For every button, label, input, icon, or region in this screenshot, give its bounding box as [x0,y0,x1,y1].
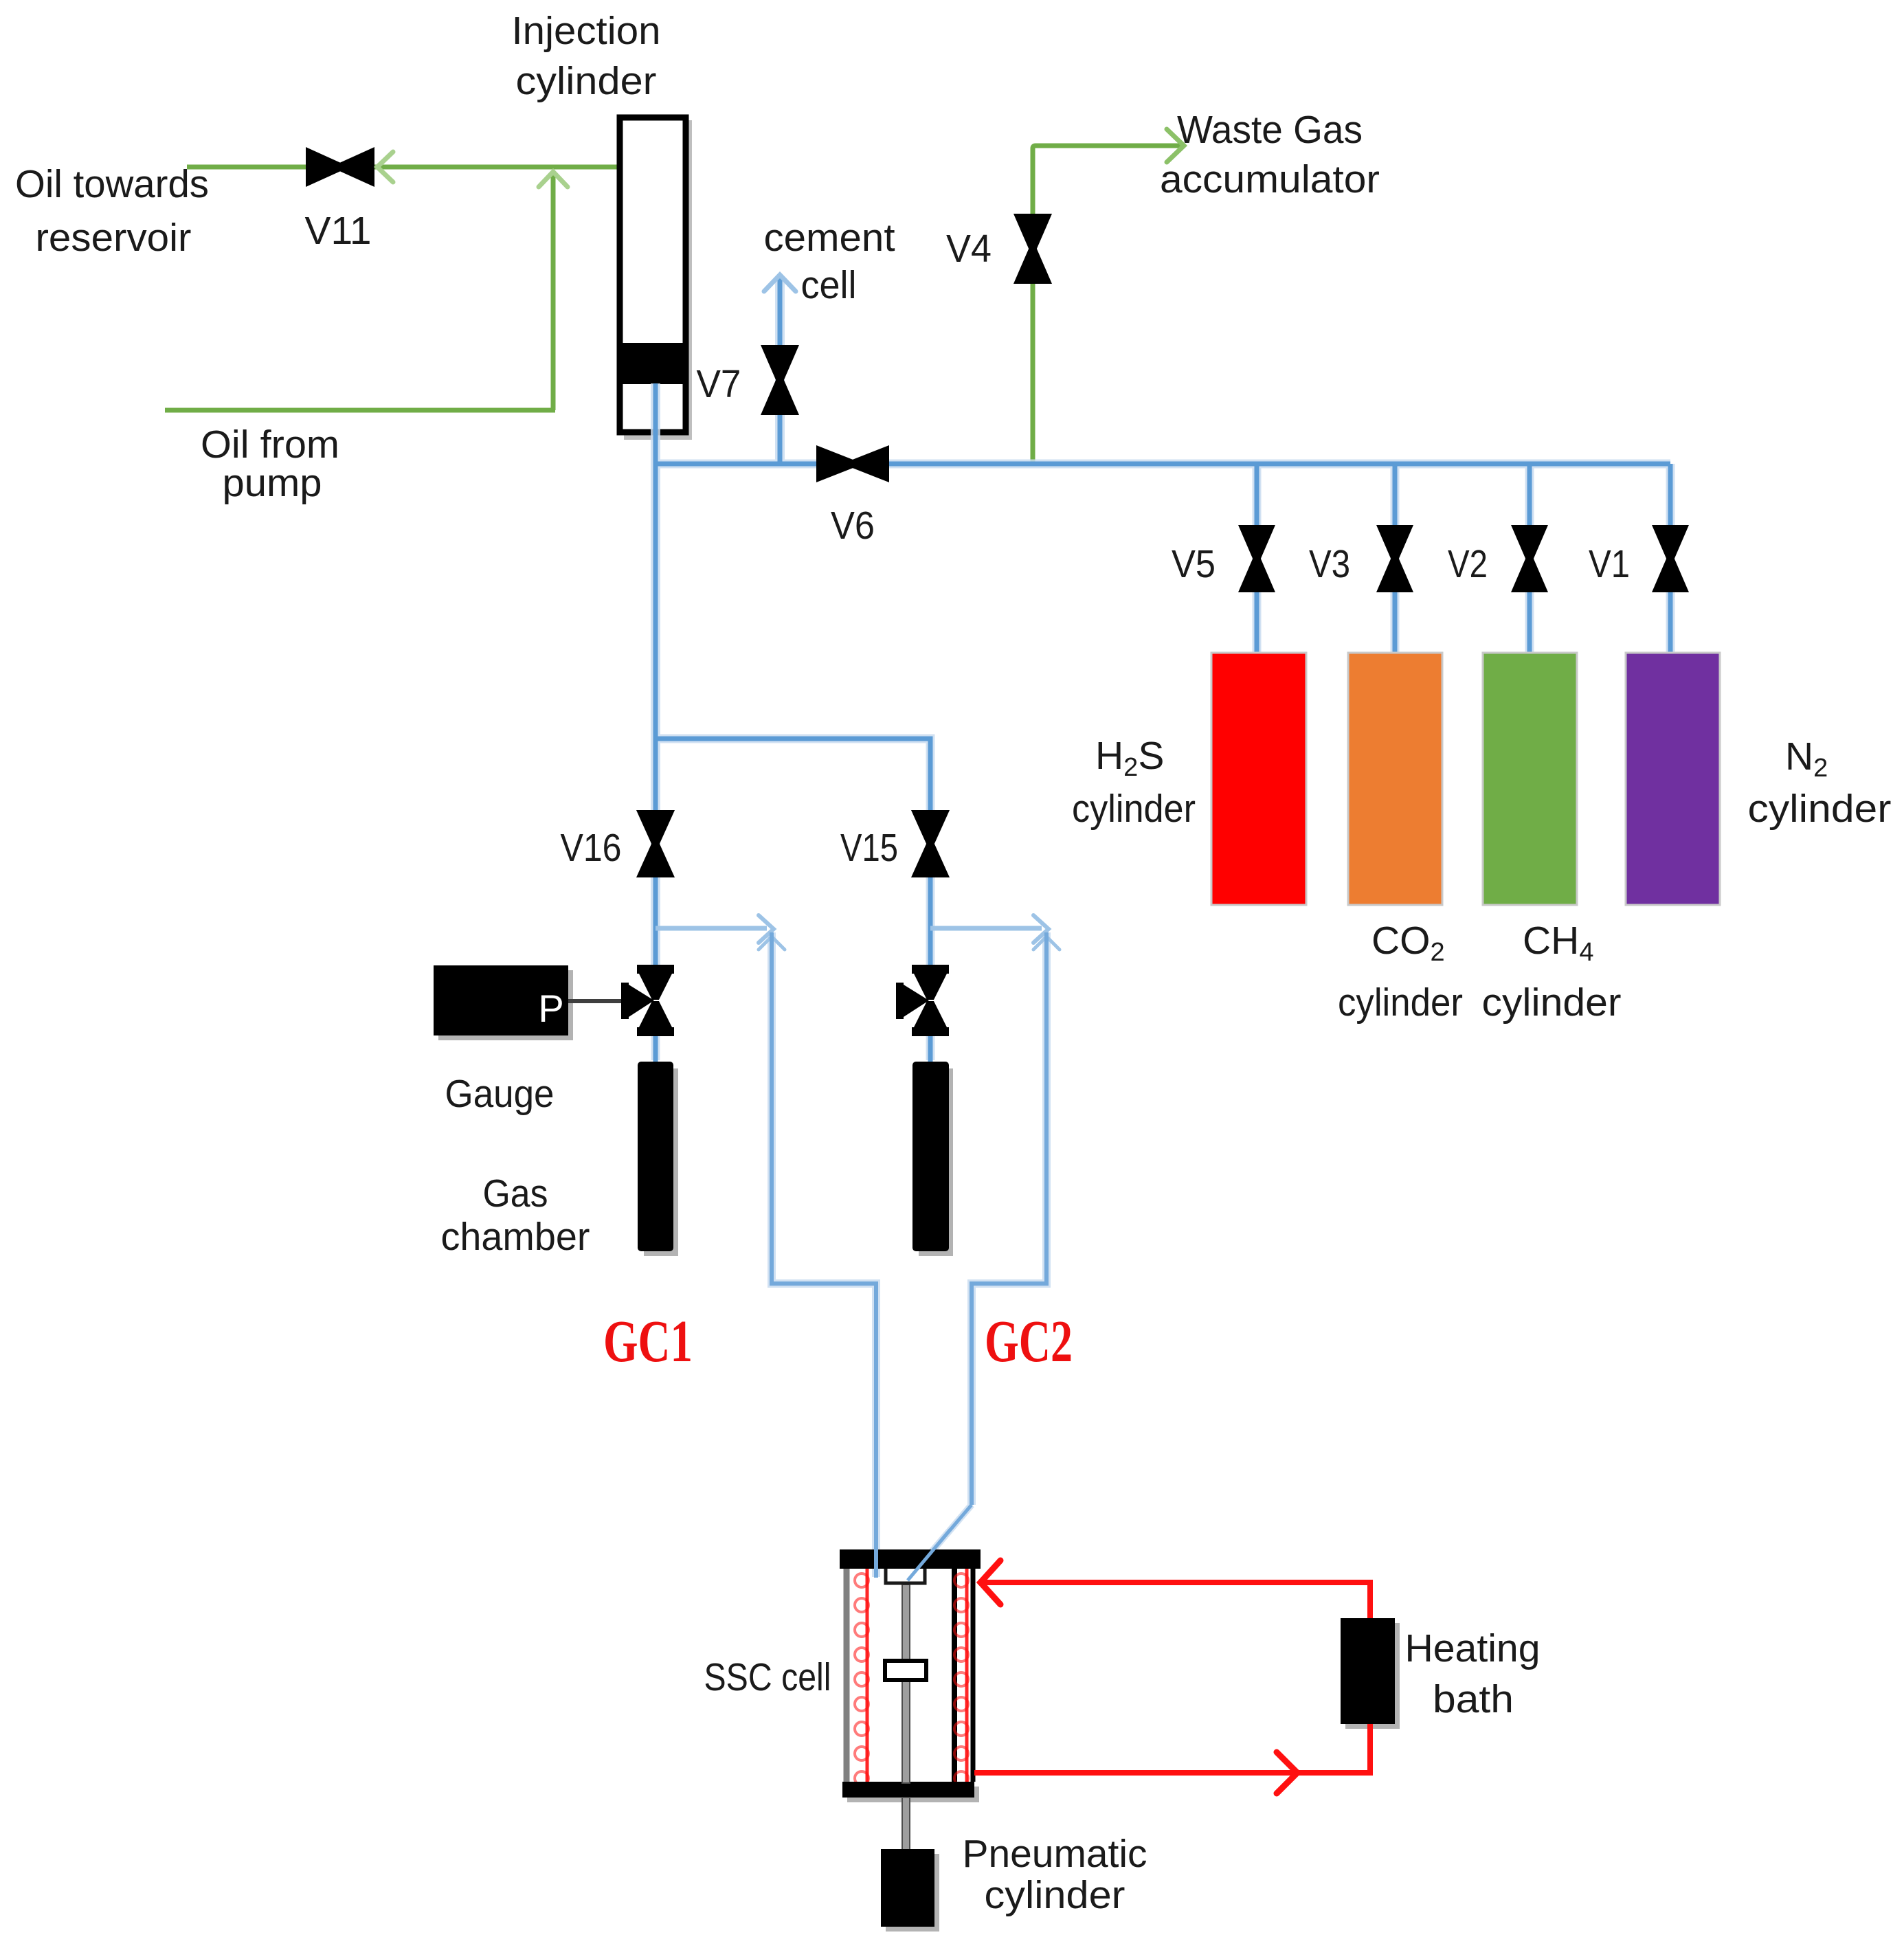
svg-text:cylinder: cylinder [1072,787,1196,831]
H2S cylinder (red) [1211,653,1306,905]
arrow up into main green line [539,172,568,187]
wire: V15 down leg [928,877,933,965]
SSC cell left wall [844,1569,850,1782]
wire: GC1 entry over plate [874,1546,878,1578]
heating coil right [954,1567,968,1799]
injection cylinder shadow [624,120,692,440]
wire: branch to V15 [656,739,930,810]
svg-text:cylinder: cylinder [1338,981,1463,1025]
svg-text:reservoir: reservoir [36,216,192,260]
heating bath [1341,1618,1395,1724]
injection cylinder piston [623,343,683,384]
pneumatic cylinder shadow [886,1854,939,1932]
valve V5 [1238,525,1275,592]
wire: GC1 drop to SSC cell [772,932,876,1577]
wire: main blue vertical from injection cylinder [653,383,658,965]
heating loop top line [978,1582,1370,1618]
svg-text:Heating: Heating [1405,1626,1541,1670]
pneumatic cylinder box [881,1849,934,1927]
svg-text:V4: V4 [946,227,992,271]
svg-text:V2: V2 [1448,542,1488,586]
wire: oil towards reservoir (green main horizontal) [187,165,619,170]
arrow to cement cell [764,275,796,291]
SSC cell bottom plate [842,1782,974,1798]
pneumatic rod [902,1798,910,1850]
wire: vertical green from oil pump line [551,173,556,410]
arrow into V11 (flow left) [377,152,393,182]
arrow to bath (heating) [1277,1752,1297,1793]
svg-text:cell: cell [801,263,857,307]
svg-text:Pneumatic: Pneumatic [963,1832,1147,1876]
svg-text:V15: V15 [840,826,898,870]
wire: GC2 drop [972,932,1046,1505]
valve V7 [761,345,799,415]
wire: N2 cylinder drop [1668,464,1673,653]
svg-text:GC2: GC2 [985,1308,1073,1374]
wire: waste gas green vertical [1033,146,1180,464]
injection cylinder [620,117,686,432]
svg-text:V5: V5 [1172,542,1216,586]
SSC cell bottom plate shadow [847,1787,979,1802]
valve V6 [816,445,889,482]
svg-text:V1: V1 [1589,542,1630,586]
wire halos (soft light-blue) [656,278,1670,1579]
svg-text:Oil towards: Oil towards [15,162,209,206]
arrow into cell (heating) [981,1560,1000,1604]
heating loop bottom line [974,1724,1370,1773]
wire: H2S cylinder drop [1255,464,1259,653]
wire: CH4 cylinder drop [1527,464,1532,653]
svg-text:V16: V16 [561,826,622,870]
svg-text:chamber: chamber [441,1215,590,1259]
wire: oil from pump (green lower horizontal) [165,408,555,413]
svg-text:Oil from: Oil from [201,423,339,467]
svg-text:cylinder: cylinder [1482,981,1622,1025]
wire: GC2 diagonal into SSC cell [908,1505,972,1579]
SSC cell top plate [840,1549,981,1569]
3-way valve on GC2 chamber [896,965,949,1036]
svg-text:Waste Gas: Waste Gas [1177,108,1363,152]
valve V3 [1376,525,1413,592]
svg-text:cylinder: cylinder [1748,787,1892,831]
gas chamber GC1 (black bar) [644,1068,678,1256]
valve V1 [1652,525,1689,592]
valve V16 [636,810,675,877]
wire: main blue horizontal manifold [656,462,1670,467]
svg-text:Injection: Injection [512,9,661,53]
svg-text:accumulator: accumulator [1160,157,1380,201]
SSC cell right wall inner [952,1569,957,1782]
svg-text:GC1: GC1 [603,1308,693,1374]
wire: CO2 cylinder drop [1393,464,1398,653]
N2 cylinder (purple) [1626,653,1720,905]
svg-text:V3: V3 [1309,542,1350,586]
3-way valve on GC1 chamber [621,965,674,1036]
gauge box [434,965,568,1035]
wire: to GC2 chamber [928,1036,933,1064]
svg-text:cement: cement [764,216,895,260]
stirrer rod [902,1585,910,1783]
gas chamber GC2 (black bar) [919,1068,953,1256]
svg-text:cylinder: cylinder [516,59,657,103]
heating coil left [855,1567,869,1799]
gauge shadow [438,970,573,1040]
wire: cement cell line [778,278,783,464]
wire: GC2 diagonal entry over plate [908,1530,950,1580]
svg-text:pump: pump [223,461,322,505]
svg-text:Gauge: Gauge [445,1072,555,1116]
piston disc [885,1661,926,1680]
CH4 cylinder (green) [1483,653,1577,905]
wire: GC2 branch arrow [930,926,1042,931]
valve V2 [1511,525,1548,592]
wire: to GC1 chamber [653,1036,658,1064]
inlet cup [886,1569,925,1583]
wire: gauge connector [568,999,631,1003]
svg-text:SSC cell: SSC cell [704,1655,831,1699]
valve V11 [306,147,374,187]
wire: GC1 branch arrow [656,926,767,931]
svg-text:V11: V11 [305,209,372,253]
SSC cell right wall outer [971,1569,976,1782]
valve V4 [1013,214,1052,284]
svg-text:Gas: Gas [483,1172,548,1216]
arrow to waste gas accumulator [1167,129,1184,162]
svg-text:bath: bath [1433,1677,1514,1721]
CO2 cylinder (orange) [1348,653,1442,905]
svg-text:V7: V7 [697,362,741,406]
svg-text:V6: V6 [831,504,875,548]
svg-text:P: P [538,987,563,1030]
valve V15 [911,810,950,877]
svg-text:cylinder: cylinder [985,1873,1125,1917]
heating bath shadow [1345,1623,1400,1729]
